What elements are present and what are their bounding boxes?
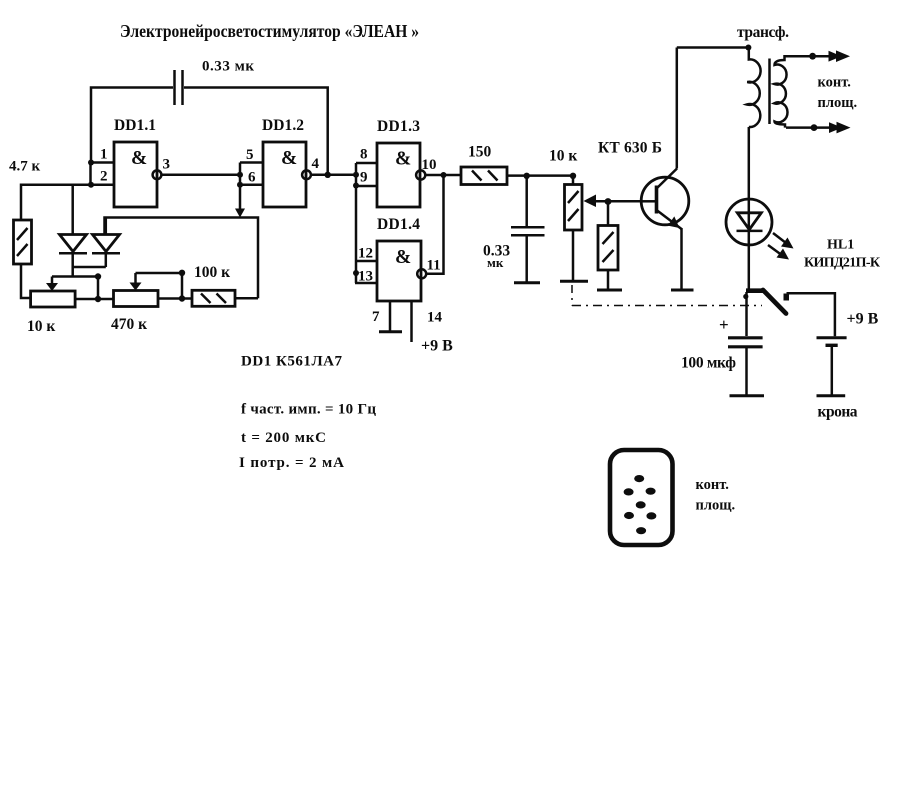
svg-text:Электронейросветостимулятор «Э: Электронейросветостимулятор «ЭЛЕАН » bbox=[120, 21, 419, 41]
battery GB1 крона bbox=[817, 311, 879, 421]
ground at C3 bbox=[730, 394, 765, 397]
node pin8/9 input junction dot bbox=[353, 172, 359, 178]
pin 7 label bbox=[372, 309, 380, 325]
pin 14 label bbox=[427, 310, 443, 326]
svg-text:&: & bbox=[281, 148, 297, 169]
wire 470к right terminal to 100к bbox=[158, 297, 192, 300]
pin 7 lead of DD1 bbox=[389, 301, 392, 331]
svg-text:крона: крона bbox=[818, 404, 858, 421]
wire down to pot right terminal bbox=[97, 277, 100, 300]
svg-text:трансф.: трансф. bbox=[737, 24, 789, 41]
node pin13 junction dot bbox=[353, 270, 359, 276]
node dot at C2 tap bbox=[524, 173, 530, 179]
wire feedback from pin6 down with arrowhead bbox=[235, 185, 245, 218]
wire R1 top to pin2 rail bbox=[21, 185, 91, 220]
node pin1 junction dot bbox=[88, 160, 94, 166]
wire DD1.4 output pin11 joining pin10 net bbox=[426, 175, 443, 274]
svg-text:&: & bbox=[395, 149, 411, 170]
svg-text:7: 7 bbox=[372, 309, 380, 325]
svg-text:470 к: 470 к bbox=[111, 316, 147, 333]
gate DD1.1 (К561ЛА7 element 1) bbox=[91, 117, 171, 207]
svg-text:100 к: 100 к bbox=[194, 264, 230, 281]
svg-text:10: 10 bbox=[422, 157, 437, 173]
wire DD1.2 output pin4 to DD1.3 inputs bbox=[311, 174, 356, 177]
svg-text:+: + bbox=[719, 315, 729, 334]
resistor R1 4.7 к bbox=[9, 159, 41, 265]
trimmer resistor R6 10 к bbox=[549, 148, 582, 281]
gate DD1.4 bbox=[355, 216, 441, 301]
pin 14 lead of DD1 bbox=[410, 301, 413, 342]
svg-text:9: 9 bbox=[360, 170, 368, 186]
svg-text:КТ 630 Б: КТ 630 Б bbox=[598, 140, 662, 157]
node dot at trimmer top bbox=[570, 173, 576, 179]
svg-text:площ.: площ. bbox=[818, 95, 858, 111]
svg-text:DD1.3: DD1.3 bbox=[377, 118, 420, 135]
wire 100к right to feedback rail bbox=[235, 297, 258, 300]
svg-text:+9 В: +9 В bbox=[847, 311, 879, 328]
ground at pin 7 bbox=[379, 330, 402, 333]
svg-text:+9 В: +9 В bbox=[421, 338, 453, 355]
node dot 182,273 bbox=[179, 270, 185, 276]
resistor R5 150 bbox=[461, 144, 507, 185]
node pin6 lower corner dot bbox=[237, 182, 243, 188]
diode VD2 bbox=[92, 218, 120, 268]
note I потр. bbox=[239, 455, 344, 471]
svg-text:11: 11 bbox=[427, 258, 441, 274]
ground at C2 bbox=[514, 281, 540, 284]
wire pot 10к right terminal to pot 470к bbox=[75, 298, 113, 301]
svg-text:1: 1 bbox=[100, 147, 108, 163]
transistor VT1 КТ 630 Б bbox=[598, 140, 689, 230]
node output join dot bbox=[441, 172, 447, 178]
wire DD1.3 inputs down to DD1.4 inputs bbox=[355, 163, 358, 283]
svg-text:DD1.4: DD1.4 bbox=[377, 216, 420, 233]
capacitor C3 100 мкф bbox=[681, 292, 763, 395]
svg-text:мк: мк bbox=[487, 255, 504, 270]
svg-text:6: 6 bbox=[248, 170, 256, 186]
svg-text:10 к: 10 к bbox=[27, 318, 55, 335]
wire feedback horizontal rail to 100к bbox=[105, 218, 259, 299]
svg-text:конт.: конт. bbox=[818, 75, 851, 91]
switch SA1 bbox=[743, 290, 789, 314]
label DD1 К561ЛА7 bbox=[241, 354, 343, 370]
wire LED cathode down to switch bbox=[748, 245, 751, 292]
node pin9 lower dot bbox=[353, 183, 359, 189]
wire R1 bottom to potentiometer 10к bbox=[21, 264, 31, 298]
node dot at 98,276 bbox=[95, 273, 101, 279]
svg-text:2: 2 bbox=[100, 169, 108, 185]
node pin2 junction dot bbox=[88, 182, 94, 188]
wire transformer primary bottom to LED bbox=[748, 127, 751, 199]
svg-text:8: 8 bbox=[360, 147, 368, 163]
svg-text:f част. имп. = 10 Гц: f част. имп. = 10 Гц bbox=[241, 402, 376, 418]
svg-text:10 к: 10 к bbox=[549, 148, 577, 165]
resistor R7 base bias bbox=[598, 202, 618, 290]
net +9 В at pin 14 bbox=[421, 338, 453, 355]
gate DD1.3 bbox=[356, 118, 437, 207]
wire DD1.3 output to resistor 150 bbox=[425, 174, 461, 177]
svg-text:100 мкф: 100 мкф bbox=[681, 355, 736, 372]
ground at trimmer 10к bbox=[560, 280, 588, 283]
svg-text:DD1.2: DD1.2 bbox=[262, 117, 304, 134]
transformer T1 трансф. bbox=[677, 24, 789, 128]
label конт. площ. bottom bbox=[696, 477, 736, 514]
potentiometer R3 470 к bbox=[111, 273, 158, 333]
wire trimmer wiper to transistor base bbox=[584, 195, 642, 208]
svg-text:площ.: площ. bbox=[696, 498, 736, 514]
title Электронейросветостимулятор ЭЛЕАН bbox=[120, 21, 419, 41]
wire 470к wiper to its right terminal bbox=[136, 273, 183, 299]
svg-text:DD1 К561ЛА7: DD1 К561ЛА7 bbox=[241, 354, 343, 370]
contact pad symbol конт. площ. bbox=[610, 450, 673, 545]
svg-text:HL1: HL1 bbox=[827, 238, 854, 253]
svg-text:конт.: конт. bbox=[696, 477, 729, 493]
svg-text:КИПД21П-К: КИПД21П-К bbox=[804, 256, 881, 271]
capacitor C1 0.33 мк feedback bbox=[175, 59, 255, 106]
diode VD1 bbox=[59, 185, 87, 277]
node C1/output junction dot bbox=[325, 172, 331, 178]
node dot base/divider bbox=[605, 198, 612, 205]
gate DD1.2 bbox=[240, 117, 320, 207]
svg-text:14: 14 bbox=[427, 310, 443, 326]
wire collector up to transformer bbox=[676, 48, 679, 169]
label конт. площ. top right bbox=[818, 75, 858, 112]
svg-text:12: 12 bbox=[358, 246, 373, 262]
node pin5/6 input junction dot bbox=[237, 172, 243, 178]
svg-text:150: 150 bbox=[468, 144, 492, 161]
node dot at 98,299 bbox=[95, 296, 101, 302]
svg-text:3: 3 bbox=[163, 157, 171, 173]
wire DD1.1 output pin3 to DD1.2 inputs bbox=[162, 174, 241, 177]
ground at battery bbox=[817, 394, 846, 397]
svg-text:&: & bbox=[395, 247, 411, 268]
ground at R7 bbox=[597, 289, 622, 292]
wire emitter down to ground bbox=[680, 228, 683, 289]
wire 150 to trimmer 10к top bbox=[507, 174, 573, 177]
note t = 200 мкС bbox=[241, 430, 326, 446]
svg-text:4: 4 bbox=[312, 156, 320, 172]
wire secondary bottom terminal to contact pad bbox=[786, 122, 851, 134]
capacitor C2 0.33 мк bbox=[483, 176, 545, 282]
boundary dash-dot shield line bbox=[572, 285, 762, 306]
svg-text:I потр. = 2 мА: I потр. = 2 мА bbox=[239, 455, 344, 471]
wire secondary top terminal to contact pad bbox=[785, 50, 850, 62]
node dot 182,298.5 bbox=[179, 295, 185, 301]
svg-text:t = 200 мкС: t = 200 мкС bbox=[241, 430, 326, 446]
wire VD2 cathode to VD1 cathode bbox=[73, 266, 106, 269]
svg-text:4.7 к: 4.7 к bbox=[9, 159, 41, 175]
svg-text:0.33 мк: 0.33 мк bbox=[202, 59, 254, 75]
wire C1 right lead down to DD1.2 output node bbox=[184, 88, 328, 175]
wire switch to battery bbox=[787, 293, 835, 336]
ground at emitter bbox=[671, 289, 694, 292]
potentiometer R2 10 к bbox=[27, 277, 75, 336]
wire C1 left lead to pin1 of DD1.1 bbox=[91, 88, 173, 163]
resistor R4 100 к bbox=[192, 264, 235, 306]
svg-text:13: 13 bbox=[358, 269, 373, 285]
svg-text:&: & bbox=[131, 148, 147, 169]
note f част. имп. bbox=[241, 402, 376, 418]
wire diode node to 10к wiper and right arm bbox=[52, 275, 98, 278]
svg-text:DD1.1: DD1.1 bbox=[114, 117, 156, 134]
LED HL1 КИПД21П-К bbox=[726, 199, 881, 271]
svg-text:5: 5 bbox=[246, 147, 254, 163]
